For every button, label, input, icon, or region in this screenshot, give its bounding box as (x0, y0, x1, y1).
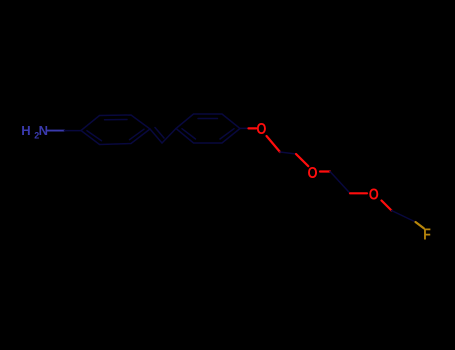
svg-text:H: H (21, 123, 30, 138)
svg-text:O: O (308, 165, 318, 182)
svg-text:F: F (423, 226, 431, 244)
svg-text:N: N (39, 123, 48, 138)
svg-text:O: O (256, 121, 266, 138)
svg-text:O: O (369, 186, 379, 203)
